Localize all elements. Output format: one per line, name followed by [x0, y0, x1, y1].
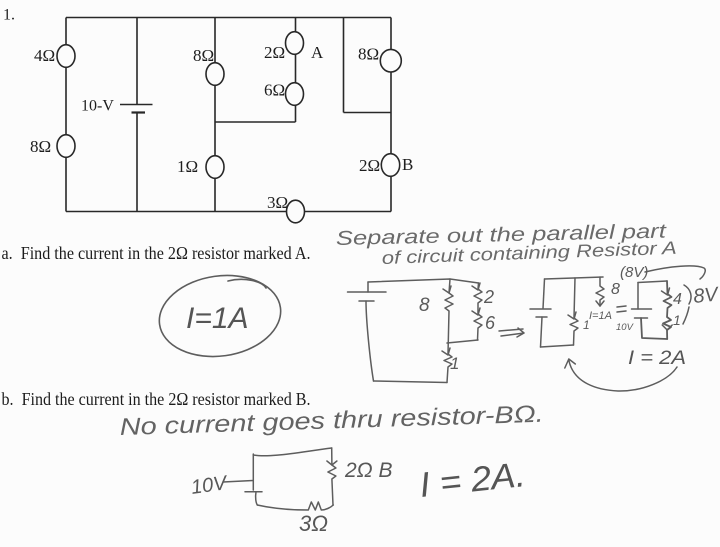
- hand sketch 1: arrow on 8 resistor: [443, 286, 451, 293]
- equals sign between sketches: [617, 306, 626, 312]
- svg-text:10V: 10V: [190, 472, 230, 499]
- svg-text:2Ω B: 2Ω B: [344, 459, 393, 482]
- svg-text:10V: 10V: [616, 322, 635, 333]
- label 3ohm: [267, 193, 288, 212]
- hand sketch 1: bottom wire: [374, 381, 448, 383]
- svg-text:I=1A: I=1A: [186, 302, 249, 335]
- hand sketch 1: right wire with resistors 2 and 6: [474, 283, 482, 340]
- svg-text:6Ω: 6Ω: [264, 81, 285, 100]
- wire: battery branch lower: [136, 113, 138, 212]
- hand sketch 2: label I=1A: [589, 310, 612, 322]
- hand sketch 2: arrow on resistor 1: [568, 312, 576, 319]
- hand sketch b: right wire with 2ohm resistor: [328, 448, 336, 505]
- hand sketch 1: arrow on 1 resistor: [442, 348, 450, 355]
- hand sketch b: left lower wire: [256, 492, 258, 505]
- label 4ohm: [34, 46, 55, 65]
- question a text: [2, 243, 311, 263]
- hand sketch 1: arrow on 2 resistor: [472, 283, 480, 290]
- handwriting line: No current goes thru resistor-B 2ohm.: [119, 401, 544, 441]
- wire: middle branch x=215: [214, 18, 216, 212]
- svg-text:I = 2A: I = 2A: [628, 348, 686, 369]
- svg-text:1: 1: [450, 354, 459, 373]
- wire: top rail: [66, 17, 391, 19]
- hand sketch 1: label 1: [450, 354, 459, 373]
- hand sketch 2: arrow head on 8 branch: [596, 301, 604, 306]
- handwriting I = 2A. (part b): [418, 455, 527, 505]
- hand sketch 3: left wire up: [637, 283, 639, 310]
- hand sketch 3: label 1: [673, 312, 681, 328]
- hand sketch 1: battery lead down: [367, 282, 369, 292]
- problem number 1.: [3, 7, 15, 24]
- svg-text:6: 6: [485, 313, 496, 333]
- hand sketch 1: connector wire bottom of parallel pair: [447, 340, 478, 343]
- hand sketch b: label 2ohm B: [344, 459, 393, 482]
- wire: right branch x=391: [390, 18, 392, 212]
- svg-text:1Ω: 1Ω: [177, 157, 198, 176]
- label A: [311, 43, 324, 62]
- resistor 8ohm (left bottom): [57, 135, 75, 158]
- hand sketch b: label 3ohm: [299, 511, 328, 536]
- resistor 6ohm: [286, 83, 304, 106]
- hand sketch 1: label 2: [483, 287, 494, 307]
- resistor 2ohm marked B: [381, 154, 399, 177]
- handwriting line: of circuit containing Resistor A: [381, 238, 677, 268]
- battery V1 long plate: [120, 104, 153, 106]
- label B: [402, 155, 413, 174]
- wire: branch x=295.5 (2ohm/6ohm): [295, 18, 297, 123]
- label 2ohm A: [264, 43, 285, 62]
- svg-text:1: 1: [673, 312, 681, 328]
- svg-text:a. Find the current in the 2Ω: a. Find the current in the 2Ω resistor m…: [2, 243, 311, 263]
- label 8ohm left: [30, 137, 51, 156]
- hand sketch 3: bottom wire: [641, 318, 667, 339]
- hand sketch 3: arrow on 4: [662, 288, 670, 295]
- big curved arrow (part a): [565, 359, 677, 391]
- svg-text:8Ω: 8Ω: [30, 137, 51, 156]
- hand sketch b: battery short plate: [245, 491, 262, 493]
- hand sketch 3: label 4: [673, 291, 682, 308]
- hand sketch 3: arrow on 1: [662, 325, 672, 330]
- handwriting curve from (8V) to right: [645, 266, 705, 279]
- svg-text:2: 2: [483, 287, 494, 307]
- resistor 3ohm (bottom): [287, 200, 305, 223]
- svg-text:4Ω: 4Ω: [34, 46, 55, 65]
- handwriting label (8V): [620, 264, 648, 281]
- printed circuit schematic: [3, 7, 413, 223]
- label 8ohm middle: [193, 46, 214, 65]
- hand sketch 3: right wire with resistors 4 and 1: [663, 281, 672, 339]
- resistor 8ohm (middle): [206, 63, 224, 86]
- hand sketch b: top wire: [253, 448, 331, 456]
- svg-text:8Ω: 8Ω: [358, 45, 379, 64]
- circled answer ellipse: [154, 268, 286, 364]
- svg-text:1: 1: [583, 318, 590, 332]
- resistor 1ohm: [206, 156, 224, 179]
- resistor 4ohm (left top): [57, 45, 75, 68]
- handwriting line: Separate out the parallel part: [336, 220, 668, 250]
- hand sketch b: lead from 10V: [223, 481, 253, 483]
- handwriting I=1A inside circle: [186, 302, 249, 335]
- hand sketch b: bottom wire with 3ohm resistor: [257, 502, 333, 510]
- svg-text:2Ω: 2Ω: [264, 43, 285, 62]
- svg-text:8: 8: [611, 281, 620, 298]
- hand sketch 2: top wire: [545, 277, 604, 279]
- hand sketch 3: battery short plate: [635, 317, 648, 319]
- label 10-V: [81, 98, 114, 115]
- svg-text:I = 2A.: I = 2A.: [418, 455, 527, 505]
- svg-text:I=1A: I=1A: [589, 310, 612, 322]
- hand sketch 1: label 6: [485, 313, 496, 333]
- hand sketch b: resistor tick: [327, 461, 337, 465]
- label 1ohm: [177, 157, 198, 176]
- arrow implies (double arrow): [499, 328, 524, 337]
- label 8ohm right: [358, 45, 379, 64]
- wire: branch x=343.5: [343, 18, 345, 113]
- hand sketch 1: battery short plate: [359, 300, 374, 302]
- hand sketch 2: label 10V: [616, 322, 635, 333]
- hand sketch 1: battery long plate: [348, 291, 387, 293]
- hand sketch b: label 10V: [190, 472, 230, 499]
- wire: battery branch upper: [136, 18, 138, 105]
- hand sketch 3: paren and label 8V: [683, 285, 691, 324]
- svg-text:8Ω: 8Ω: [193, 46, 214, 65]
- hand sketch 2: label 8: [611, 281, 620, 298]
- svg-text:3Ω: 3Ω: [299, 511, 328, 536]
- hand sketch 2: label 1: [583, 318, 590, 332]
- wire: bottom rail: [66, 211, 391, 213]
- hand sketch 3: battery long plate: [632, 308, 652, 310]
- hand sketch 1: battery wire top: [368, 279, 479, 283]
- svg-text:8V: 8V: [692, 283, 720, 308]
- handwriting I = 2A (part a): [628, 348, 686, 369]
- hand sketch 1: label 8: [419, 295, 430, 316]
- svg-text:(8V): (8V): [620, 264, 648, 281]
- svg-text:A: A: [311, 43, 324, 62]
- hand sketch 2: left wire lower: [541, 317, 543, 347]
- wire: horizontal connector y=122: [215, 121, 296, 123]
- question b text: [2, 389, 311, 409]
- resistor 8ohm (right): [380, 49, 401, 72]
- hand sketch b: battery long plate (vertical): [252, 454, 254, 490]
- svg-text:3Ω: 3Ω: [267, 193, 288, 212]
- svg-text:B: B: [402, 155, 413, 174]
- hand sketch 1: middle wire with resistors 8 and 1: [444, 279, 453, 383]
- label 2ohm B: [359, 156, 380, 175]
- battery V1 short plate: [132, 111, 146, 113]
- label 6ohm: [264, 81, 285, 100]
- hand sketch 2: middle wire with resistor 1: [570, 278, 578, 345]
- hand sketch 2: battery long plate: [530, 308, 551, 310]
- svg-text:4: 4: [673, 291, 682, 308]
- hand sketch 1: left wire: [366, 301, 374, 381]
- hand sketch 2: battery short plate: [536, 316, 547, 318]
- wire: left branch: [65, 18, 67, 212]
- hand sketch 2: left wire upper: [543, 279, 545, 309]
- svg-text:10-V: 10-V: [81, 98, 114, 115]
- hand sketch 1: arrow on 6 resistor: [472, 308, 480, 315]
- svg-text:8: 8: [419, 295, 430, 316]
- resistor 2ohm marked A: [286, 32, 304, 55]
- svg-text:1.: 1.: [3, 7, 15, 24]
- hand sketch 3: top wire: [638, 281, 667, 283]
- wire: horizontal connector y=112.5: [344, 112, 392, 114]
- hand sketch 2: right branch resistor 8: [596, 277, 604, 306]
- svg-text:b. Find the current in the 2Ω: b. Find the current in the 2Ω resistor m…: [2, 389, 311, 409]
- svg-text:2Ω: 2Ω: [359, 156, 380, 175]
- hand sketch 2: bottom wire: [541, 345, 574, 347]
